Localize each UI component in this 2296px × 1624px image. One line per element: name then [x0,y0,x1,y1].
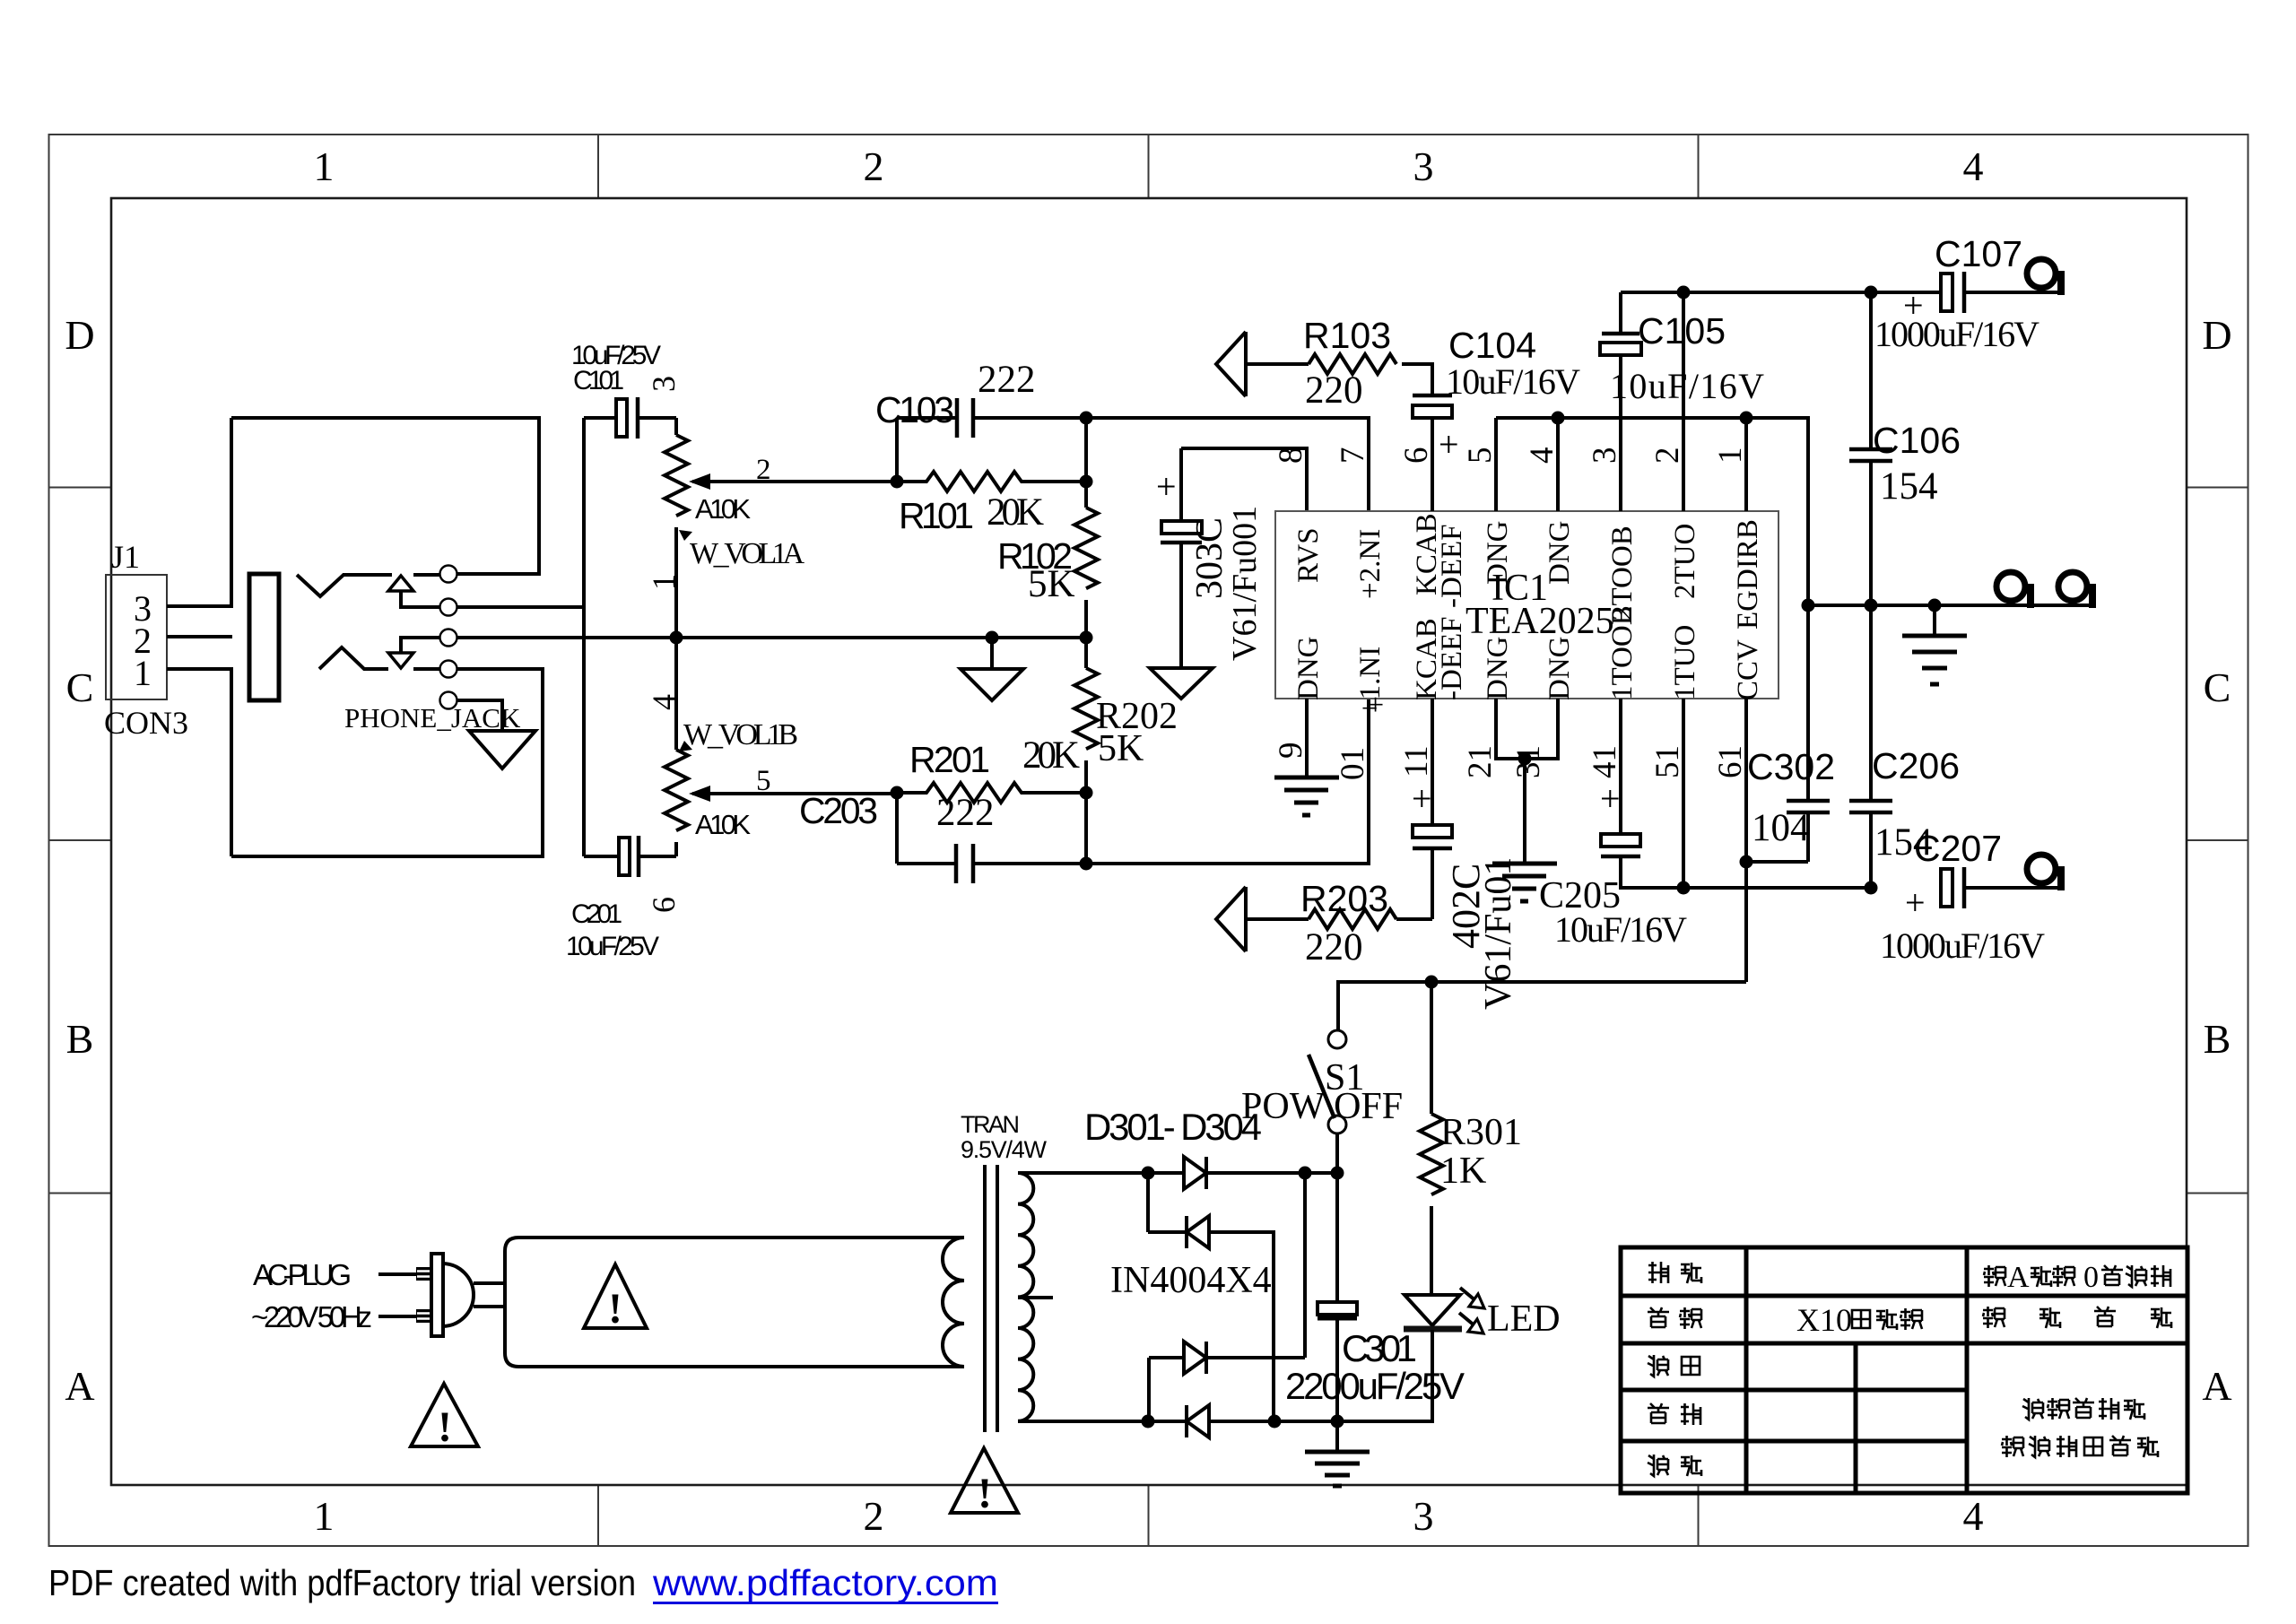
svg-text:8: 8 [1273,447,1309,465]
svg-text:A: A [2202,1363,2231,1409]
svg-text:10uF/16V: 10uF/16V [1610,366,1764,406]
svg-text:222: 222 [978,359,1036,401]
svg-text:www.pdffactory.com: www.pdffactory.com [652,1562,998,1603]
capacitor C303 [1179,448,1183,668]
resistor R201 [897,783,1086,803]
svg-text:R201: R201 [909,739,990,780]
svg-text:R203: R203 [1300,878,1388,919]
svg-text:DNG: DNG [1292,637,1325,701]
label 审 核 [1648,1403,1669,1423]
svg-text:R103: R103 [1303,315,1391,356]
wire C303 to SVR pin8 [1181,448,1307,511]
svg-text:A: A [2007,1261,2030,1294]
pin 9 ground [1305,699,1309,777]
phone jack body bar [249,574,279,700]
svg-text:1: 1 [314,1493,335,1539]
svg-text:+: + [1600,778,1621,819]
wire OUT2 net [1621,291,1941,294]
wire jack contact2 to C101 branch [457,605,584,609]
svg-text:1TUO: 1TUO [1669,625,1701,700]
switch S1 [1328,1030,1346,1048]
transformer TRAN [985,1165,997,1432]
wire input branch vertical [582,418,586,856]
label 绘 制 [1648,1355,1668,1376]
svg-text:!: ! [608,1285,622,1333]
svg-text:V61/Fu01: V61/Fu01 [1478,857,1519,1010]
wire pin1 of CON3 [167,669,231,856]
pins 5,4 to gnd wire [1496,418,1746,511]
pin names top row [1292,513,1764,630]
svg-text:!: ! [438,1403,452,1451]
ground C303 (triangle) [1150,668,1213,699]
label 名 称 [1648,1307,1669,1327]
jack upper switch arrow [401,591,439,607]
pin 2 OUT2 up [1682,292,1685,511]
svg-text:303C: 303C [1189,517,1231,599]
svg-text:3: 3 [646,376,682,392]
svg-text:61: 61 [1712,745,1749,778]
diode D301 [1184,1157,1206,1189]
speaker jack mid pair [1996,572,2025,601]
wire speaker ground [1808,604,2089,607]
svg-text:2200uF/25V: 2200uF/25V [1285,1365,1465,1407]
svg-text:1K: 1K [1440,1151,1486,1192]
resistor R103 with input arrow [1246,332,1396,396]
speaker jack bottom [2027,855,2056,883]
svg-text:!: ! [978,1470,992,1517]
label 批 准 [1648,1455,1668,1476]
svg-text:4: 4 [1963,1493,1984,1539]
svg-text:3: 3 [1413,143,1434,189]
pin numbers top [1273,447,1749,465]
capacitor C103 [897,418,1086,482]
svg-text:C104: C104 [1448,325,1536,366]
capacitor C106 [1869,292,1873,605]
wire top loop to jack contact 1 [231,418,539,574]
svg-text:-DEEF: -DEEF [1436,617,1468,701]
svg-text:20K: 20K [987,491,1044,534]
wire jack contact5 to ground [457,700,502,731]
warning triangle 2 [411,1384,478,1446]
svg-text:+: + [1367,689,1384,722]
wire to IN.2+ pin7 [1086,418,1369,511]
svg-text:7: 7 [1335,447,1371,465]
svg-text:~220V 50Hz: ~220V 50Hz [251,1300,372,1333]
diode D302 [1187,1216,1209,1248]
svg-text:9: 9 [1273,743,1309,760]
wire pin3 of CON3 [167,418,231,606]
text 第 页 共 页 [1983,1307,2171,1328]
warning triangle 1 [584,1264,647,1328]
svg-text:TRAN: TRAN [961,1111,1020,1138]
svg-text:C103: C103 [875,389,954,430]
text 第A版第 0次修改 [1984,1261,2170,1294]
svg-text:10uF/16V: 10uF/16V [1554,909,1687,950]
diode bridge wiring [1018,1173,1432,1421]
svg-text:+2.NI: +2.NI [1354,529,1387,599]
diode D303 [1184,1342,1206,1374]
svg-text:+: + [1905,882,1926,923]
svg-text:C: C [66,664,94,710]
right band dividers [2187,488,2248,1194]
svg-text:DNG: DNG [1544,521,1576,586]
svg-text:1000uF/16V: 1000uF/16V [1874,314,2039,354]
svg-text:C107: C107 [1935,233,2022,274]
pin 11 to C204 [1431,699,1434,825]
mains cable box [505,1238,964,1367]
svg-text:V61/Fu001: V61/Fu001 [1226,506,1264,661]
speaker jack top [2027,259,2056,288]
wiper arrow W_VOL1A [692,480,897,483]
text X10 电路图 [1796,1302,1922,1338]
svg-text:C302: C302 [1747,746,1835,787]
resistor R202 [1074,638,1098,793]
pin 16 VCC down [1744,699,1748,982]
left band dividers [49,488,112,1194]
svg-text:4: 4 [1524,447,1561,465]
pdfFactory footer [48,1562,998,1604]
svg-text:EGDIRB: EGDIRB [1732,519,1764,630]
svg-text:1: 1 [646,574,682,590]
svg-text:B: B [66,1016,94,1062]
capacitor C203 [897,793,1086,864]
svg-text:10uF/16V: 10uF/16V [1446,361,1580,402]
svg-text:C301: C301 [1342,1327,1417,1369]
svg-text:W_VOL1B: W_VOL1B [683,718,798,751]
svg-text:D: D [2202,312,2231,358]
svg-text:0: 0 [2083,1261,2099,1294]
svg-text:C207: C207 [1914,828,2002,869]
svg-text:6: 6 [646,897,682,913]
capacitor C302 [1746,605,1808,862]
inner drawing border [111,198,2187,1485]
op-amp IC1 body [1275,511,1779,699]
warning triangle 3 [951,1448,1018,1513]
svg-text:9.5V/4W: 9.5V/4W [961,1136,1048,1163]
svg-text:6: 6 [1398,447,1435,465]
svg-text:1: 1 [314,143,335,189]
svg-text:POW OFF: POW OFF [1241,1086,1403,1127]
svg-text:1000uF/16V: 1000uF/16V [1880,925,2045,966]
svg-text:A10K: A10K [695,809,751,840]
svg-text:C: C [2204,664,2231,710]
wire to IN.1 pin10 [1086,699,1369,864]
diode D304 [1187,1405,1209,1437]
ground power [1335,1421,1339,1452]
svg-text:41: 41 [1587,745,1623,778]
svg-text:2TUO: 2TUO [1669,524,1701,599]
ground jack (triangle) [469,731,535,769]
svg-text:J1: J1 [111,539,140,575]
pin 1 BRIDGE up [1744,418,1748,511]
svg-text:PDF created with pdfFactory tr: PDF created with pdfFactory trial versio… [48,1562,636,1603]
resistor R203 with input arrow [1246,887,1432,951]
svg-text:3: 3 [1587,447,1623,465]
svg-text:220: 220 [1305,369,1363,412]
svg-text:R301: R301 [1440,1112,1522,1153]
capacitor C206 [1869,605,1873,888]
pin 15 OUT1 down [1682,699,1685,888]
svg-text:AC-PLUG: AC-PLUG [253,1258,352,1291]
svg-text:PHONE_JACK: PHONE_JACK [344,702,521,734]
potentiometer W_VOL1A [665,418,688,638]
AC plug [378,1274,418,1316]
jack lower switch arrow [401,638,439,653]
svg-text:C201: C201 [571,899,622,929]
svg-text:RVS: RVS [1292,527,1325,583]
svg-text:21: 21 [1462,745,1499,778]
svg-text:2: 2 [1649,447,1686,465]
svg-text:DNG: DNG [1482,637,1514,701]
wire bottom loop to jack contact 4 [231,669,543,856]
svg-text:W_VOL1A: W_VOL1A [690,537,804,570]
capacitor C104 [1431,419,1434,511]
svg-text:IN4004X4: IN4004X4 [1110,1260,1272,1301]
svg-text:LED: LED [1487,1298,1561,1340]
wire BRIDGE to ground net [1746,418,1808,605]
svg-text:C101: C101 [573,366,624,395]
svg-text:5: 5 [756,765,771,797]
svg-text:154: 154 [1880,465,1938,508]
svg-text:A10K: A10K [695,493,751,525]
wire VCC to switch [1338,982,1746,1029]
svg-text:10uF/25V: 10uF/25V [566,932,659,961]
label 编 号 [1648,1262,1668,1283]
svg-text:3: 3 [1413,1493,1434,1539]
resistor R102 [1074,418,1098,638]
bottom band dividers [598,1485,1699,1546]
svg-text:2: 2 [864,143,884,189]
svg-text:2: 2 [756,454,771,486]
svg-text:R101: R101 [899,495,974,536]
pin 14 to C205 [1619,699,1622,834]
capacitor C201 [584,855,676,858]
svg-text:C206: C206 [1872,745,1960,786]
svg-text:+: + [1412,778,1432,819]
svg-text:4: 4 [646,694,682,710]
jack lower tip contact [319,647,439,669]
pins 12,13 to ground [1496,699,1558,864]
svg-text:4: 4 [1963,143,1984,189]
potentiometer W_VOL1B [665,638,688,856]
svg-text:1: 1 [1712,447,1749,465]
svg-text:5: 5 [1462,447,1499,465]
pin names bottom row [1292,605,1764,716]
capacitor C101 [584,416,676,420]
svg-text:104: 104 [1752,807,1810,849]
capacitor C107 [1941,274,1952,311]
capacitor C301 [1335,1173,1339,1421]
jack contact circles [440,566,457,709]
capacitor C105 on pin 3 [1619,355,1622,511]
svg-text:B: B [2204,1016,2231,1062]
jack upper tip contact [297,575,439,596]
LED [1405,1295,1460,1325]
svg-text:DNG: DNG [1544,637,1576,701]
svg-text:+: + [1439,424,1459,465]
resistor R301 [1420,982,1443,1295]
svg-text:2: 2 [864,1493,884,1539]
svg-text:+: + [1156,466,1177,507]
top band dividers [598,135,1699,198]
wire center common [457,636,1086,639]
svg-text:1TOOB: 1TOOB [1606,605,1639,700]
svg-text:DNG: DNG [1482,521,1514,586]
svg-text:X10: X10 [1796,1302,1852,1338]
svg-text:C106: C106 [1873,420,1961,461]
svg-text:D: D [65,312,94,358]
svg-text:D301- D304: D301- D304 [1084,1106,1262,1148]
svg-text:1: 1 [134,653,152,693]
svg-text:TEA2025: TEA2025 [1465,601,1614,642]
connector CON3 body [106,575,167,699]
resistor R101 [897,472,1086,491]
svg-text:5K: 5K [1098,728,1144,769]
svg-text:-DEEF: -DEEF [1436,525,1468,609]
company 深圳漫步者 / 科技有限公司 [2002,1398,2158,1457]
svg-text:51: 51 [1649,745,1686,778]
svg-text:11: 11 [1398,745,1435,777]
svg-text:A: A [65,1363,94,1409]
svg-text:222: 222 [936,792,995,834]
capacitor C207 [1941,869,1952,907]
svg-text:CCV: CCV [1732,639,1764,700]
pin numbers bottom [1273,743,1749,781]
wiper arrow W_VOL1B [692,792,897,795]
ground main [1933,605,1936,636]
svg-text:C203: C203 [799,790,878,831]
svg-text:5K: 5K [1028,563,1075,605]
svg-text:220: 220 [1305,926,1363,968]
svg-text:CON3: CON3 [104,705,188,741]
svg-text:20K: 20K [1022,734,1080,777]
ground center (triangle) [961,638,1023,700]
svg-text:01: 01 [1335,747,1371,780]
wire pin2 stub [167,635,232,638]
